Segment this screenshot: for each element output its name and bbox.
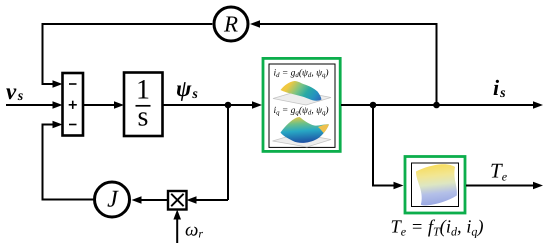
svg-text:vs: vs (6, 79, 24, 104)
svg-text:R: R (223, 11, 238, 36)
junction node to R feedback (433, 102, 440, 109)
wire: psi_s junction down to multiplier (187, 105, 229, 204)
integrator block 1/s (124, 73, 163, 137)
wire: integrator output to flux map block (163, 101, 263, 109)
svg-text:J: J (107, 186, 119, 212)
svg-text:ψs: ψs (176, 76, 198, 102)
wire: feedback up to R (250, 20, 437, 105)
wire: junction down to torque map block (373, 105, 404, 189)
surface plot 1 (i_d map) (273, 81, 331, 105)
svg-text:iq = gq(ψd, ψq): iq = gq(ψd, ψq) (273, 106, 328, 117)
wire: v_s input line (6, 101, 63, 109)
torque map block (green) (405, 157, 465, 214)
multiplier X block (168, 191, 187, 210)
wire: summing output to integrator (83, 101, 124, 109)
surface plot 3 (torque map) (416, 164, 457, 205)
svg-text:Te = fT(id, iq): Te = fT(id, iq) (390, 218, 483, 239)
flux-to-current map block (green) (263, 58, 340, 151)
svg-text:Te: Te (490, 159, 508, 184)
wire: multiplier to J (132, 196, 169, 204)
wire: i_s output line (341, 101, 543, 109)
surface plot 2 (i_q map) (273, 117, 332, 147)
gain circle J (95, 182, 130, 217)
svg-text:s: s (138, 102, 149, 133)
svg-text:ωr: ωr (185, 220, 203, 241)
wire: omega_r input arrow (173, 210, 181, 244)
junction node on psi_s wire (225, 102, 232, 109)
wire: T_e output (466, 182, 543, 190)
junction node to torque map (370, 102, 377, 109)
svg-text:is: is (493, 75, 506, 101)
wire: R output to summing top input (43, 24, 213, 88)
svg-text:id = gd(ψd, ψq): id = gd(ψd, ψq) (273, 69, 328, 80)
wire: J output up to summing bottom input (43, 121, 94, 200)
resistance circle R (214, 7, 248, 41)
summing junction S1 (63, 73, 84, 136)
